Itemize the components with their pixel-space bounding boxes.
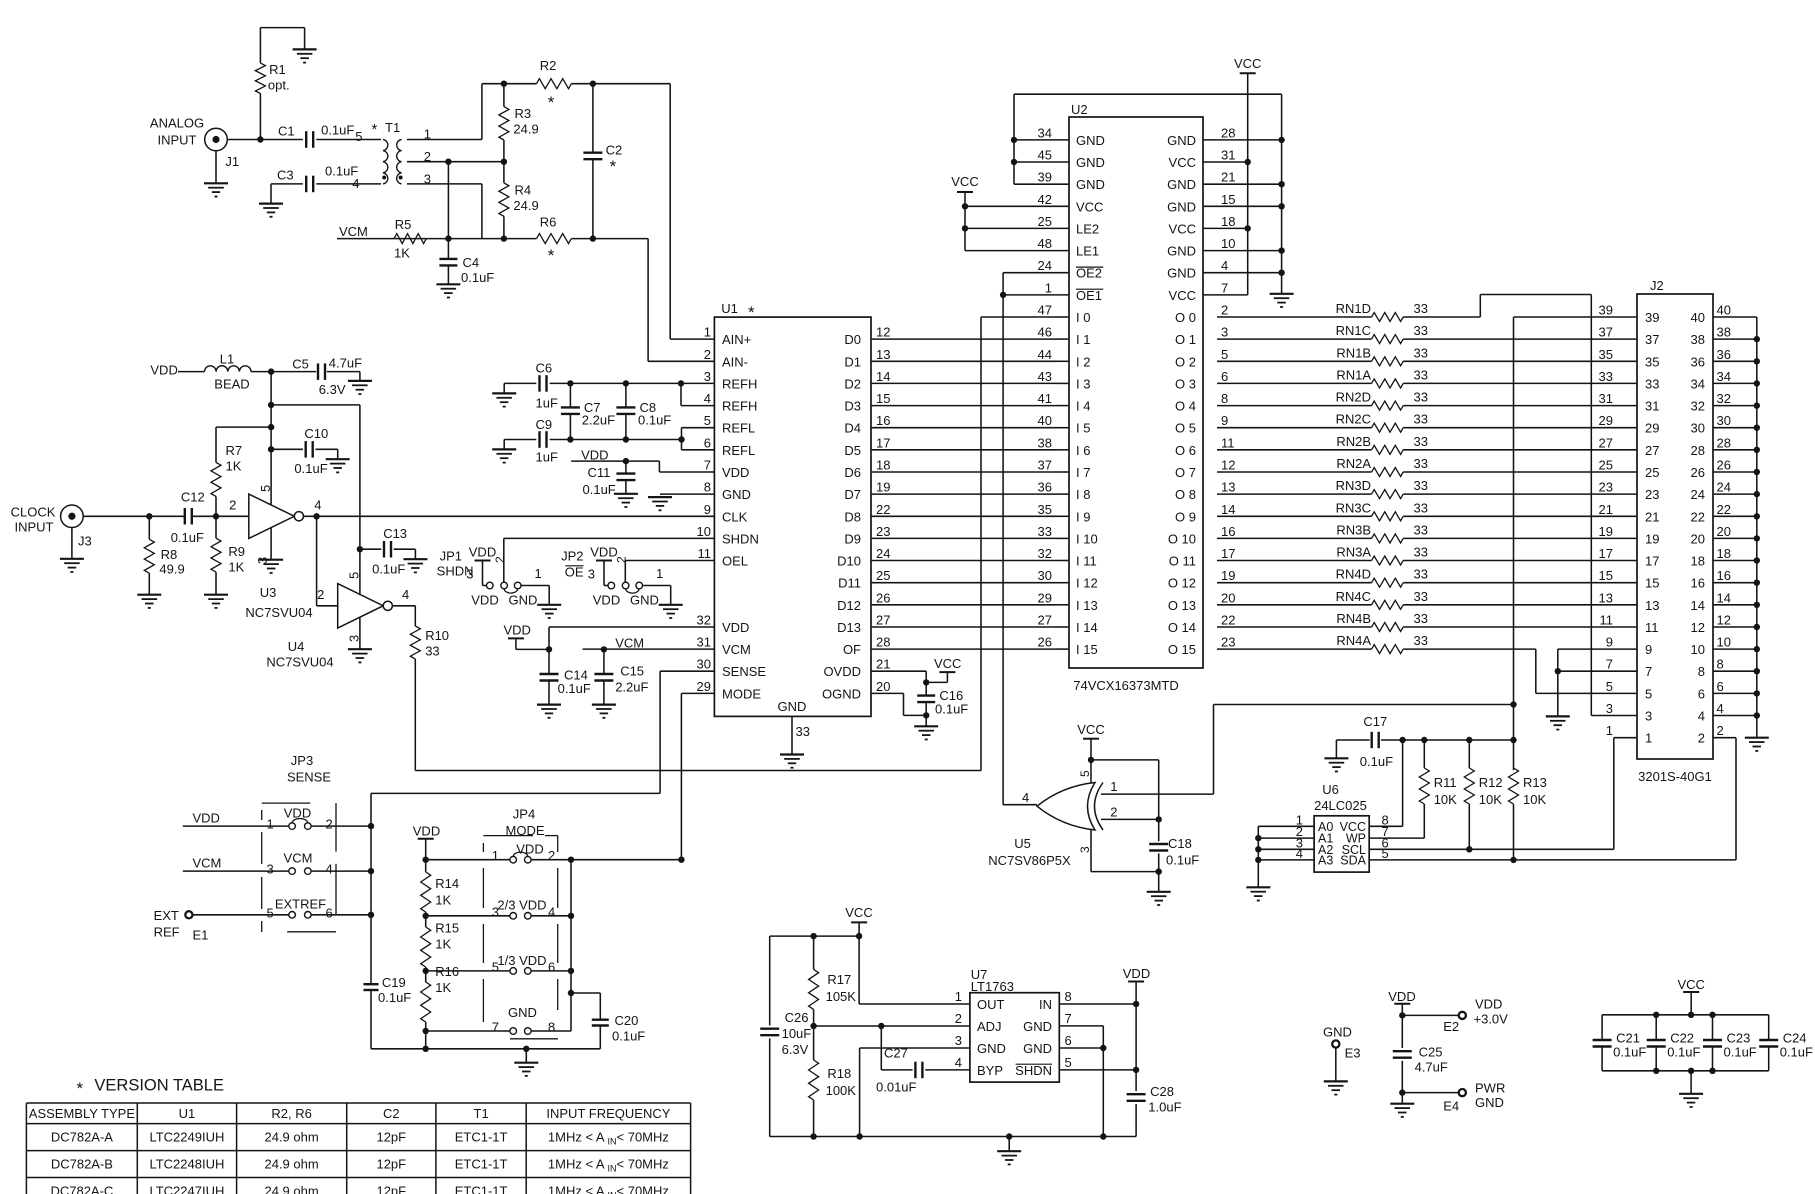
- svg-text:0.1uF: 0.1uF: [378, 990, 411, 1005]
- svg-text:C13: C13: [383, 526, 407, 541]
- svg-text:VERSION TABLE: VERSION TABLE: [94, 1077, 224, 1095]
- svg-text:O 9: O 9: [1175, 509, 1196, 524]
- svg-text:D13: D13: [837, 620, 861, 635]
- svg-text:GND: GND: [1323, 1025, 1352, 1040]
- svg-text:VDD: VDD: [1475, 997, 1502, 1012]
- svg-text:17: 17: [1221, 546, 1235, 561]
- svg-text:I 13: I 13: [1076, 598, 1098, 613]
- svg-text:1K: 1K: [394, 246, 410, 261]
- svg-text:11: 11: [698, 546, 712, 561]
- svg-text:VDD: VDD: [516, 842, 543, 857]
- svg-text:27: 27: [1599, 435, 1613, 450]
- svg-text:C25: C25: [1419, 1045, 1443, 1060]
- svg-text:GND: GND: [1023, 1019, 1052, 1034]
- svg-text:LTC2247IUH: LTC2247IUH: [149, 1184, 224, 1194]
- svg-text:15: 15: [1599, 568, 1613, 583]
- svg-text:SDA: SDA: [1340, 853, 1366, 867]
- svg-text:14: 14: [1221, 502, 1235, 517]
- svg-text:1: 1: [1045, 280, 1052, 295]
- svg-text:33: 33: [1414, 545, 1428, 560]
- svg-text:VDD: VDD: [193, 811, 220, 826]
- svg-text:6: 6: [1065, 1033, 1072, 1048]
- svg-text:J3: J3: [78, 534, 92, 549]
- svg-text:1.0uF: 1.0uF: [1148, 1100, 1181, 1115]
- svg-text:VDD: VDD: [504, 623, 531, 638]
- svg-text:0.1uF: 0.1uF: [1780, 1045, 1813, 1060]
- svg-text:C2: C2: [383, 1106, 400, 1121]
- svg-text:I 8: I 8: [1076, 487, 1090, 502]
- svg-text:GND: GND: [722, 487, 751, 502]
- svg-text:5: 5: [1382, 846, 1389, 861]
- svg-text:*: *: [77, 1079, 84, 1098]
- svg-text:1/3 VDD: 1/3 VDD: [497, 953, 546, 968]
- svg-text:38: 38: [1717, 325, 1731, 340]
- svg-text:E4: E4: [1443, 1099, 1459, 1114]
- svg-text:0.1uF: 0.1uF: [583, 482, 616, 497]
- svg-text:J1: J1: [225, 154, 239, 169]
- svg-text:REFL: REFL: [722, 421, 755, 436]
- svg-text:5: 5: [1606, 679, 1613, 694]
- svg-text:34: 34: [1717, 369, 1731, 384]
- svg-text:28: 28: [1221, 125, 1235, 140]
- svg-text:D4: D4: [844, 421, 861, 436]
- svg-text:23: 23: [1645, 487, 1659, 502]
- svg-text:I 5: I 5: [1076, 421, 1090, 436]
- svg-text:GND: GND: [1167, 177, 1196, 192]
- svg-text:O 11: O 11: [1169, 554, 1196, 569]
- svg-text:U1: U1: [721, 301, 738, 316]
- svg-text:AIN-: AIN-: [722, 354, 748, 369]
- svg-text:10K: 10K: [1523, 792, 1546, 807]
- svg-text:0.1uF: 0.1uF: [1166, 853, 1199, 868]
- svg-text:3: 3: [955, 1033, 962, 1048]
- svg-text:VDD: VDD: [1388, 989, 1415, 1004]
- svg-text:9: 9: [1645, 642, 1652, 657]
- svg-text:0.1uF: 0.1uF: [171, 530, 204, 545]
- svg-text:DC782A-C: DC782A-C: [50, 1184, 113, 1194]
- svg-text:4: 4: [1717, 701, 1724, 716]
- svg-text:5: 5: [347, 572, 362, 579]
- svg-text:VCC: VCC: [1677, 977, 1704, 992]
- svg-text:0.1uF: 0.1uF: [321, 123, 354, 138]
- svg-text:VDD: VDD: [413, 824, 440, 839]
- svg-text:O 10: O 10: [1168, 531, 1196, 546]
- svg-text:1: 1: [535, 566, 542, 581]
- svg-text:C18: C18: [1168, 836, 1192, 851]
- svg-text:4: 4: [548, 904, 555, 919]
- svg-text:I 10: I 10: [1076, 531, 1098, 546]
- svg-text:19: 19: [1599, 524, 1613, 539]
- svg-text:R3: R3: [515, 106, 532, 121]
- svg-text:35: 35: [1599, 347, 1613, 362]
- svg-text:0.1uF: 0.1uF: [1360, 754, 1393, 769]
- svg-text:C21: C21: [1616, 1031, 1640, 1046]
- svg-text:36: 36: [1691, 354, 1705, 369]
- svg-text:24.9: 24.9: [513, 198, 538, 213]
- svg-text:9: 9: [1221, 413, 1228, 428]
- svg-text:1uF: 1uF: [536, 450, 558, 465]
- svg-text:GND: GND: [1076, 133, 1105, 148]
- svg-text:I 1: I 1: [1076, 332, 1090, 347]
- svg-text:1: 1: [267, 817, 274, 832]
- svg-text:0.1uF: 0.1uF: [294, 461, 327, 476]
- svg-text:GND: GND: [1167, 133, 1196, 148]
- svg-text:0.1uF: 0.1uF: [461, 270, 494, 285]
- svg-text:36: 36: [1717, 347, 1731, 362]
- svg-text:VCM: VCM: [193, 856, 222, 871]
- svg-text:4: 4: [352, 176, 359, 191]
- svg-text:8: 8: [548, 1020, 555, 1035]
- svg-text:1K: 1K: [435, 937, 451, 952]
- svg-text:REF: REF: [154, 925, 180, 940]
- svg-text:2: 2: [1698, 731, 1705, 746]
- svg-text:43: 43: [1038, 369, 1052, 384]
- svg-text:RN2C: RN2C: [1336, 412, 1371, 427]
- svg-text:4.7uF: 4.7uF: [329, 356, 362, 371]
- svg-text:O 12: O 12: [1168, 576, 1196, 591]
- svg-text:30: 30: [1038, 568, 1052, 583]
- svg-text:100K: 100K: [826, 1083, 857, 1098]
- svg-text:33: 33: [1414, 345, 1428, 360]
- svg-text:O 5: O 5: [1175, 421, 1196, 436]
- svg-text:30: 30: [1691, 421, 1705, 436]
- svg-text:24: 24: [1038, 258, 1052, 273]
- svg-text:14: 14: [1717, 590, 1731, 605]
- svg-text:33: 33: [1414, 456, 1428, 471]
- svg-text:O 1: O 1: [1175, 332, 1196, 347]
- svg-text:22: 22: [876, 502, 890, 517]
- svg-text:I 11: I 11: [1076, 554, 1097, 569]
- svg-text:RN4A: RN4A: [1336, 633, 1371, 648]
- svg-text:10K: 10K: [1479, 792, 1502, 807]
- svg-text:I 6: I 6: [1076, 443, 1090, 458]
- svg-text:15: 15: [876, 391, 890, 406]
- svg-text:29: 29: [697, 679, 711, 694]
- svg-text:R8: R8: [161, 547, 178, 562]
- svg-text:0.1uF: 0.1uF: [558, 681, 591, 696]
- svg-text:23: 23: [876, 524, 890, 539]
- svg-text:13: 13: [1221, 480, 1235, 495]
- svg-text:JP1: JP1: [440, 549, 462, 564]
- svg-text:1K: 1K: [435, 980, 451, 995]
- svg-text:19: 19: [1221, 568, 1235, 583]
- svg-text:5: 5: [1078, 770, 1092, 777]
- svg-text:T1: T1: [474, 1106, 489, 1121]
- svg-text:33: 33: [1414, 611, 1428, 626]
- svg-text:1uF: 1uF: [536, 396, 558, 411]
- svg-text:30: 30: [697, 657, 711, 672]
- svg-text:C12: C12: [181, 490, 205, 505]
- svg-text:33: 33: [425, 644, 439, 659]
- svg-text:8: 8: [1717, 657, 1724, 672]
- svg-text:O 8: O 8: [1175, 487, 1196, 502]
- svg-text:GND: GND: [1167, 199, 1196, 214]
- svg-text:O 6: O 6: [1175, 443, 1196, 458]
- svg-text:12pF: 12pF: [376, 1130, 406, 1145]
- svg-text:3: 3: [588, 567, 595, 582]
- svg-text:105K: 105K: [826, 989, 857, 1004]
- svg-text:38: 38: [1691, 332, 1705, 347]
- svg-text:33: 33: [1414, 301, 1428, 316]
- svg-text:13: 13: [1645, 598, 1659, 613]
- svg-text:1: 1: [704, 325, 711, 340]
- svg-text:11: 11: [1221, 435, 1235, 450]
- svg-text:R4: R4: [515, 183, 532, 198]
- svg-text:10: 10: [1221, 236, 1235, 251]
- svg-text:ETC1-1T: ETC1-1T: [455, 1157, 508, 1172]
- svg-text:4: 4: [1698, 709, 1705, 724]
- svg-text:RN1D: RN1D: [1336, 301, 1371, 316]
- svg-text:O 14: O 14: [1168, 620, 1196, 635]
- svg-text:C3: C3: [277, 168, 294, 183]
- svg-text:3: 3: [466, 567, 473, 582]
- svg-text:24: 24: [1691, 487, 1705, 502]
- svg-text:BEAD: BEAD: [214, 377, 249, 392]
- svg-text:2: 2: [317, 587, 324, 602]
- svg-text:LE2: LE2: [1076, 221, 1099, 236]
- svg-text:5: 5: [355, 129, 362, 144]
- svg-text:GND: GND: [508, 1005, 537, 1020]
- svg-text:VCC: VCC: [1169, 288, 1196, 303]
- svg-text:VDD: VDD: [722, 620, 749, 635]
- svg-text:INPUT FREQUENCY: INPUT FREQUENCY: [546, 1106, 670, 1121]
- svg-text:21: 21: [1599, 502, 1613, 517]
- svg-text:D1: D1: [844, 354, 861, 369]
- svg-text:14: 14: [1691, 598, 1705, 613]
- svg-text:24: 24: [876, 546, 890, 561]
- svg-text:VCC: VCC: [1169, 155, 1196, 170]
- svg-text:D6: D6: [844, 465, 861, 480]
- svg-text:4: 4: [402, 587, 409, 602]
- svg-text:R12: R12: [1479, 775, 1503, 790]
- svg-text:6.3V: 6.3V: [782, 1042, 809, 1057]
- svg-text:31: 31: [1599, 391, 1613, 406]
- svg-text:E1: E1: [193, 928, 209, 943]
- svg-text:OUT: OUT: [977, 997, 1005, 1012]
- svg-text:5: 5: [1065, 1055, 1072, 1070]
- svg-text:D2: D2: [844, 376, 861, 391]
- svg-text:C4: C4: [463, 255, 480, 270]
- svg-text:7: 7: [1645, 664, 1652, 679]
- svg-text:21: 21: [876, 657, 890, 672]
- svg-text:+3.0V: +3.0V: [1474, 1012, 1509, 1027]
- svg-text:4: 4: [1296, 846, 1303, 861]
- svg-text:33: 33: [1414, 500, 1428, 515]
- svg-text:24.9 ohm: 24.9 ohm: [264, 1184, 318, 1194]
- svg-text:D3: D3: [844, 399, 861, 414]
- svg-text:GND: GND: [1167, 266, 1196, 281]
- svg-text:VCC: VCC: [1234, 56, 1261, 71]
- svg-text:28: 28: [1691, 443, 1705, 458]
- svg-text:RN3B: RN3B: [1336, 522, 1371, 537]
- svg-text:L1: L1: [220, 352, 234, 367]
- svg-text:RN4B: RN4B: [1336, 611, 1371, 626]
- svg-text:33: 33: [1414, 390, 1428, 405]
- svg-text:20: 20: [1221, 590, 1235, 605]
- svg-text:0.1uF: 0.1uF: [1613, 1045, 1646, 1060]
- svg-text:2: 2: [493, 556, 507, 563]
- svg-text:33: 33: [1414, 323, 1428, 338]
- svg-text:29: 29: [1599, 413, 1613, 428]
- svg-text:1: 1: [955, 989, 962, 1004]
- svg-text:8: 8: [704, 480, 711, 495]
- svg-text:C2: C2: [606, 143, 623, 158]
- svg-text:11: 11: [1600, 613, 1614, 628]
- svg-text:39: 39: [1599, 303, 1613, 318]
- svg-text:7: 7: [704, 458, 711, 473]
- svg-text:1K: 1K: [228, 560, 244, 575]
- svg-text:17: 17: [1599, 546, 1613, 561]
- svg-text:22: 22: [1221, 613, 1235, 628]
- svg-text:OF: OF: [843, 642, 861, 657]
- svg-text:35: 35: [1645, 354, 1659, 369]
- svg-text:23: 23: [1599, 480, 1613, 495]
- svg-text:25: 25: [1038, 214, 1052, 229]
- svg-text:32: 32: [697, 613, 711, 628]
- svg-text:2.2uF: 2.2uF: [615, 680, 648, 695]
- svg-text:37: 37: [1038, 458, 1052, 473]
- svg-text:R2, R6: R2, R6: [271, 1106, 311, 1121]
- svg-text:VDD: VDD: [1123, 966, 1150, 981]
- svg-text:GND: GND: [1076, 155, 1105, 170]
- svg-text:2: 2: [955, 1011, 962, 1026]
- svg-text:I 3: I 3: [1076, 376, 1090, 391]
- svg-text:OE2: OE2: [1076, 266, 1102, 281]
- svg-text:16: 16: [1221, 524, 1235, 539]
- svg-text:30: 30: [1717, 413, 1731, 428]
- svg-text:CLK: CLK: [722, 509, 748, 524]
- svg-text:U3: U3: [260, 585, 277, 600]
- svg-text:33: 33: [1414, 589, 1428, 604]
- svg-text:VCC: VCC: [934, 656, 961, 671]
- svg-text:6: 6: [1221, 369, 1228, 384]
- svg-text:I 9: I 9: [1076, 509, 1090, 524]
- svg-text:D9: D9: [844, 531, 861, 546]
- svg-text:LTC2249IUH: LTC2249IUH: [149, 1130, 224, 1145]
- svg-text:2/3 VDD: 2/3 VDD: [497, 898, 546, 913]
- svg-text:33: 33: [1414, 478, 1428, 493]
- svg-text:ASSEMBLY TYPE: ASSEMBLY TYPE: [29, 1106, 136, 1121]
- svg-text:ADJ: ADJ: [977, 1019, 1002, 1034]
- svg-text:31: 31: [697, 635, 711, 650]
- svg-text:2: 2: [704, 347, 711, 362]
- svg-text:18: 18: [1717, 546, 1731, 561]
- svg-text:28: 28: [876, 635, 890, 650]
- svg-text:I 4: I 4: [1076, 399, 1090, 414]
- svg-text:24.9 ohm: 24.9 ohm: [264, 1157, 318, 1172]
- svg-text:R17: R17: [827, 972, 851, 987]
- svg-text:2: 2: [615, 556, 629, 563]
- svg-text:BYP: BYP: [977, 1063, 1003, 1078]
- svg-text:GND: GND: [1076, 177, 1105, 192]
- svg-text:14: 14: [876, 369, 890, 384]
- svg-text:U4: U4: [288, 639, 305, 654]
- svg-text:33: 33: [1414, 633, 1428, 648]
- svg-text:D7: D7: [844, 487, 861, 502]
- svg-text:24.9 ohm: 24.9 ohm: [264, 1130, 318, 1145]
- svg-text:C10: C10: [304, 426, 328, 441]
- svg-text:C11: C11: [588, 465, 611, 480]
- svg-text:40: 40: [1038, 413, 1052, 428]
- svg-text:26: 26: [1038, 635, 1052, 650]
- svg-text:35: 35: [1038, 502, 1052, 517]
- svg-text:OE1: OE1: [1076, 288, 1102, 303]
- svg-text:27: 27: [1645, 443, 1659, 458]
- svg-text:RN4C: RN4C: [1336, 589, 1371, 604]
- svg-text:R7: R7: [226, 443, 243, 458]
- svg-text:3: 3: [267, 862, 274, 877]
- svg-text:3: 3: [492, 904, 499, 919]
- svg-text:27: 27: [876, 613, 890, 628]
- svg-text:1: 1: [1645, 731, 1652, 746]
- svg-text:32: 32: [1691, 399, 1705, 414]
- svg-text:E3: E3: [1345, 1046, 1361, 1061]
- svg-text:R11: R11: [1434, 775, 1457, 790]
- svg-text:R13: R13: [1523, 775, 1547, 790]
- svg-text:33: 33: [1414, 434, 1428, 449]
- svg-text:9: 9: [704, 502, 711, 517]
- svg-text:6: 6: [1698, 686, 1705, 701]
- svg-text:41: 41: [1038, 391, 1052, 406]
- svg-text:3: 3: [1078, 846, 1092, 853]
- svg-text:33: 33: [1414, 412, 1428, 427]
- svg-text:OE: OE: [565, 565, 584, 580]
- svg-text:18: 18: [1691, 554, 1705, 569]
- svg-text:VDD: VDD: [150, 363, 177, 378]
- svg-text:EXT: EXT: [154, 908, 179, 923]
- svg-text:19: 19: [876, 480, 890, 495]
- svg-text:VCC: VCC: [1076, 199, 1103, 214]
- svg-text:A3: A3: [1318, 853, 1333, 867]
- svg-text:O 13: O 13: [1168, 598, 1196, 613]
- svg-text:GND: GND: [1475, 1095, 1504, 1110]
- svg-text:RN3A: RN3A: [1336, 545, 1371, 560]
- svg-text:21: 21: [1221, 170, 1235, 185]
- svg-text:46: 46: [1038, 325, 1052, 340]
- svg-text:REFH: REFH: [722, 376, 757, 391]
- svg-text:R15: R15: [435, 921, 459, 936]
- svg-text:O 2: O 2: [1175, 354, 1196, 369]
- svg-text:U5: U5: [1014, 836, 1031, 851]
- svg-text:3: 3: [1606, 701, 1613, 716]
- svg-text:16: 16: [876, 413, 890, 428]
- svg-text:1: 1: [1110, 779, 1117, 794]
- svg-text:4: 4: [1221, 258, 1228, 273]
- svg-text:0.1uF: 0.1uF: [612, 1029, 645, 1044]
- svg-text:VCM: VCM: [339, 224, 368, 239]
- svg-text:7: 7: [492, 1020, 499, 1035]
- svg-text:4: 4: [955, 1055, 962, 1070]
- svg-text:12pF: 12pF: [376, 1157, 406, 1172]
- svg-text:U2: U2: [1071, 102, 1088, 117]
- svg-text:0.01uF: 0.01uF: [876, 1080, 917, 1095]
- svg-text:C1: C1: [278, 124, 295, 139]
- svg-text:0.1uF: 0.1uF: [372, 562, 405, 577]
- svg-text:74VCX16373MTD: 74VCX16373MTD: [1073, 678, 1179, 693]
- svg-text:40: 40: [1691, 310, 1705, 325]
- svg-text:12: 12: [1221, 458, 1235, 473]
- svg-text:DC782A-B: DC782A-B: [51, 1157, 113, 1172]
- svg-text:12: 12: [1691, 620, 1705, 635]
- svg-text:VCC: VCC: [1169, 221, 1196, 236]
- svg-text:22: 22: [1717, 502, 1731, 517]
- svg-text:R2: R2: [540, 58, 557, 73]
- svg-text:4: 4: [326, 862, 333, 877]
- svg-text:29: 29: [1038, 590, 1052, 605]
- svg-text:12: 12: [1717, 613, 1731, 628]
- svg-text:39: 39: [1645, 310, 1659, 325]
- svg-text:0.1uF: 0.1uF: [638, 413, 671, 428]
